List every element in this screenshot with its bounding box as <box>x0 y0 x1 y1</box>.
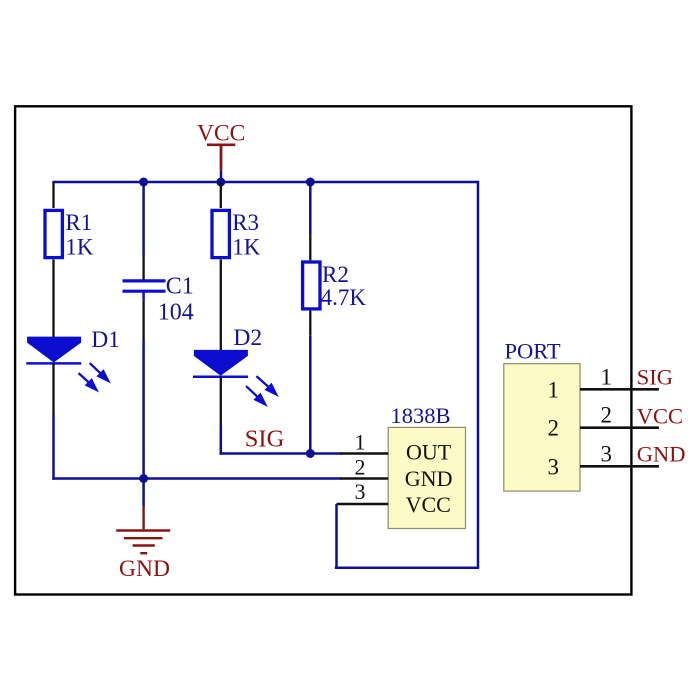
junction SIG R2 <box>306 449 315 458</box>
svg-text:SIG: SIG <box>637 365 673 390</box>
wire R3 top lead <box>220 182 222 208</box>
svg-text:1K: 1K <box>65 234 94 259</box>
wire VCC rail <box>52 181 478 184</box>
wire D1 cathode lead <box>52 363 54 414</box>
wire VCC loop right vertical <box>477 181 480 568</box>
wire SIG net <box>220 452 341 455</box>
ground GND <box>116 506 170 582</box>
svg-text:104: 104 <box>158 299 194 325</box>
IC U1 1838B <box>388 403 465 529</box>
wire C1 top <box>142 182 145 256</box>
resistor R3 <box>212 210 261 259</box>
junction C1 rail <box>139 178 148 187</box>
svg-text:1838B: 1838B <box>391 403 451 428</box>
junction R3 rail <box>216 178 225 187</box>
svg-text:GND: GND <box>405 466 453 491</box>
svg-text:R3: R3 <box>232 210 259 235</box>
wire C1 bottom stub <box>142 293 145 301</box>
pin 2 U1 <box>340 454 388 479</box>
svg-text:PORT: PORT <box>505 338 561 363</box>
junction R2 rail <box>306 178 315 187</box>
svg-text:GND: GND <box>119 556 170 582</box>
wire R2 top <box>309 182 312 235</box>
svg-text:1: 1 <box>548 377 560 402</box>
pin 3 U1 <box>337 479 389 504</box>
wire GND stub <box>142 479 145 507</box>
power VCC <box>197 120 245 170</box>
wire R1 to D1 <box>52 260 54 338</box>
wire D1 to GND net <box>52 415 55 480</box>
svg-text:1: 1 <box>601 365 613 390</box>
svg-text:3: 3 <box>548 454 560 479</box>
svg-text:R2: R2 <box>322 262 349 287</box>
pin 3 PORT <box>580 441 659 466</box>
svg-text:1K: 1K <box>232 234 261 259</box>
pin 1 U1 <box>340 430 388 455</box>
svg-text:3: 3 <box>601 441 613 466</box>
wire C1 top lead <box>142 256 144 281</box>
svg-text:2: 2 <box>601 402 613 427</box>
wire D2 cathode lead <box>220 377 222 426</box>
svg-text:OUT: OUT <box>406 439 452 464</box>
capacitor C1 <box>123 274 194 326</box>
wire pin3 riser <box>335 504 338 569</box>
svg-text:2: 2 <box>355 454 366 479</box>
LED D1 <box>26 327 120 390</box>
wire R3 to D2 <box>220 260 222 351</box>
svg-text:1: 1 <box>355 430 366 455</box>
LED D2 <box>193 325 276 405</box>
wire VCC stem <box>220 170 223 183</box>
wire R2 top lead <box>309 235 311 260</box>
pin 1 PORT <box>580 365 659 390</box>
junction GND <box>139 474 148 483</box>
resistor R2 <box>303 262 367 310</box>
connector PORT <box>504 338 580 491</box>
pin 2 PORT <box>580 402 659 427</box>
svg-text:GND: GND <box>637 441 686 466</box>
wire GND net <box>52 477 341 480</box>
svg-text:3: 3 <box>355 479 366 504</box>
wire R1 top lead <box>52 182 54 208</box>
svg-text:VCC: VCC <box>406 492 451 517</box>
wire VCC loop bottom <box>335 567 479 570</box>
wire C1 to GND net <box>142 340 145 479</box>
wire D2 to SIG net <box>221 426 222 454</box>
svg-text:R1: R1 <box>65 210 92 235</box>
wire R2 to SIG net <box>309 336 312 454</box>
svg-text:C1: C1 <box>166 274 194 300</box>
svg-text:4.7K: 4.7K <box>321 285 367 310</box>
wire R2 bottom lead <box>309 311 311 336</box>
svg-text:2: 2 <box>548 416 560 441</box>
svg-text:VCC: VCC <box>637 404 683 429</box>
svg-text:VCC: VCC <box>197 120 245 146</box>
svg-text:SIG: SIG <box>245 425 284 452</box>
svg-text:D1: D1 <box>91 327 120 353</box>
resistor R1 <box>45 210 94 259</box>
wire C1 bottom lead <box>142 301 144 340</box>
svg-text:D2: D2 <box>233 325 262 351</box>
